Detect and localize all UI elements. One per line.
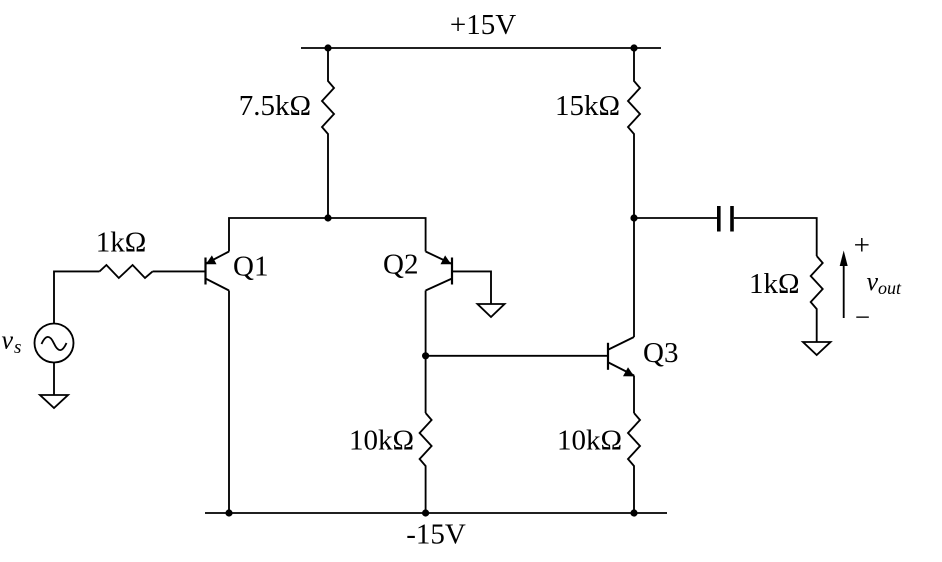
- wire Q3 emitter down: [633, 376, 635, 414]
- resistor R1 7.5k: [322, 48, 334, 218]
- resistor R6 10k right: [628, 413, 640, 513]
- svg-text:+: +: [854, 230, 870, 262]
- capacitor C1: [717, 206, 721, 232]
- svg-text:7.5kΩ: 7.5kΩ: [239, 90, 311, 122]
- wire Q2 collector down: [425, 291, 427, 414]
- transistor Q3: [608, 337, 634, 376]
- node output / capacitor junction: [630, 214, 637, 221]
- resistor R2 15k: [628, 48, 640, 218]
- resistor R5 1k load: [811, 256, 823, 342]
- wire Q3 collector up: [633, 218, 635, 337]
- transistor Q1: [206, 252, 230, 291]
- wire source to ground: [53, 363, 55, 396]
- wire emitter rail: [229, 218, 426, 252]
- node top rail / R1 junction: [324, 44, 331, 51]
- source vs: [35, 324, 74, 363]
- svg-text:10kΩ: 10kΩ: [349, 425, 414, 457]
- wire +15V top rail: [301, 47, 661, 49]
- svg-text:Q2: Q2: [383, 249, 418, 281]
- wire node to Q3 base: [426, 355, 607, 357]
- ground (source): [40, 395, 68, 408]
- wire Q2 base to ground: [453, 271, 491, 304]
- ground (Q2 base): [478, 304, 505, 317]
- svg-text:1kΩ: 1kΩ: [749, 268, 800, 300]
- wire -15V bottom rail: [205, 512, 667, 514]
- svg-text:−: −: [855, 302, 870, 332]
- resistor R4 10k left: [420, 413, 432, 513]
- arrow vout: [843, 264, 845, 318]
- wire Q1 collector down: [228, 291, 230, 514]
- node Q2 collector / Q3 base junction: [422, 352, 429, 359]
- svg-text:15kΩ: 15kΩ: [555, 90, 620, 122]
- resistor R3 1k input: [100, 265, 153, 278]
- wire capacitor to load: [734, 218, 817, 256]
- wire source to R3: [54, 271, 100, 323]
- node bottom rail / R4: [422, 509, 429, 516]
- svg-text:10kΩ: 10kΩ: [557, 425, 622, 457]
- node bottom rail / R6: [630, 509, 637, 516]
- svg-text:+15V: +15V: [450, 9, 516, 41]
- svg-text:Q3: Q3: [643, 337, 678, 369]
- svg-text:1kΩ: 1kΩ: [96, 227, 147, 259]
- svg-text:-15V: -15V: [406, 519, 466, 551]
- ground (load): [803, 342, 831, 355]
- node emitter rail / R1 junction: [324, 214, 331, 221]
- node top rail / R2 junction: [630, 44, 637, 51]
- transistor Q2: [426, 252, 452, 291]
- wire R3 to Q1 base: [153, 270, 205, 272]
- node bottom rail / Q1 collector: [225, 509, 232, 516]
- wire node to capacitor: [634, 217, 717, 219]
- svg-text:Q1: Q1: [233, 251, 268, 283]
